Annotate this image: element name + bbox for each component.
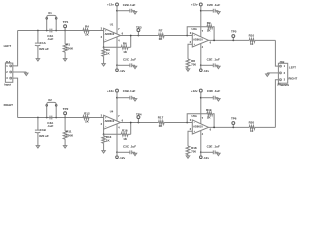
node jumper left <box>46 30 48 32</box>
op-amp U4 <box>104 115 121 129</box>
wire inverting input <box>103 40 105 47</box>
svg-text:R17: R17 <box>158 116 164 120</box>
svg-text:J1A: J1A <box>5 60 10 64</box>
ground <box>25 72 27 73</box>
wire non-inverting input <box>188 44 192 59</box>
svg-text:C2C: C2C <box>123 57 130 61</box>
wire stage2 output <box>209 39 250 41</box>
svg-text:R9: R9 <box>207 21 211 25</box>
wire pin 7 supply <box>200 98 202 124</box>
node input junction <box>37 117 39 119</box>
svg-text:TP2: TP2 <box>63 107 69 111</box>
test point TP6 <box>232 125 234 128</box>
wire inverting input <box>103 127 105 134</box>
ground <box>64 145 66 147</box>
test point TP5 <box>232 38 234 41</box>
resistor R9 feedback <box>187 27 207 36</box>
power -12V terminal <box>200 69 203 72</box>
resistor R7 <box>159 34 165 38</box>
svg-text:C3D: C3D <box>207 89 214 93</box>
node supply junction <box>200 97 202 99</box>
svg-text:R16: R16 <box>122 129 128 133</box>
node test point TP2 <box>64 117 66 119</box>
svg-text:750: 750 <box>191 63 196 67</box>
svg-text:-12v: -12v <box>203 69 209 73</box>
svg-text:U1: U1 <box>110 23 114 27</box>
node jumper left <box>46 117 48 119</box>
jumper X1 <box>46 19 48 31</box>
wire RIGHT input net <box>18 117 104 119</box>
svg-text:820 uF: 820 uF <box>39 134 49 138</box>
resistor R12 <box>83 116 89 120</box>
svg-text:U4: U4 <box>110 110 114 114</box>
svg-text:+12v: +12v <box>191 89 198 93</box>
wire non-inverting input <box>188 131 192 146</box>
svg-text:C3E: C3E <box>207 145 213 149</box>
ground <box>37 58 39 60</box>
svg-text:LEFT: LEFT <box>4 44 12 48</box>
svg-text:C2E: C2E <box>207 58 213 62</box>
ground <box>134 97 136 100</box>
svg-text:X2: X2 <box>48 98 52 102</box>
resistor R13 <box>103 134 105 136</box>
connector J1B <box>278 63 287 83</box>
node test point TP5 <box>232 39 234 41</box>
svg-text:RIGHT: RIGHT <box>4 103 14 107</box>
wire pin 4 supply <box>116 124 118 152</box>
capacitor C2C <box>117 64 130 66</box>
power -12V terminal <box>200 156 203 159</box>
wire stage2 output <box>209 126 250 128</box>
svg-text:Input: Input <box>4 83 11 87</box>
svg-text:TP1: TP1 <box>63 20 69 24</box>
node supply junction <box>116 151 118 153</box>
svg-text:TP6: TP6 <box>231 116 237 120</box>
node feedback junction <box>103 133 105 135</box>
node supply junction <box>200 10 202 12</box>
svg-text:LEFT: LEFT <box>289 66 296 70</box>
node stage2 inverting node <box>186 35 188 37</box>
op-amp U1 <box>104 28 121 42</box>
svg-text:-12v: -12v <box>203 156 209 160</box>
svg-text:-12v: -12v <box>119 156 125 160</box>
node stage2 inverting node <box>186 122 188 124</box>
svg-text:RIGHT: RIGHT <box>289 76 298 80</box>
wire pin 7 supply <box>116 11 118 34</box>
node jumper right <box>55 30 57 32</box>
ground <box>266 73 268 74</box>
node feedback tap <box>130 122 132 124</box>
svg-text:820 uF: 820 uF <box>39 47 49 51</box>
svg-text:+12v: +12v <box>107 3 114 7</box>
ground <box>187 155 189 157</box>
svg-text:U5A: U5A <box>192 114 197 118</box>
ground <box>217 10 219 13</box>
svg-text:TP3: TP3 <box>136 25 142 29</box>
svg-text:.1uF: .1uF <box>129 89 135 93</box>
test point TP1 <box>64 28 66 31</box>
op-amp U5A <box>192 120 208 134</box>
ground <box>217 152 219 155</box>
jumper X2 <box>46 106 48 118</box>
svg-text:.1uF: .1uF <box>214 89 220 93</box>
node output feedback tap <box>213 126 215 128</box>
svg-text:10: 10 <box>250 42 254 46</box>
svg-text:TP5: TP5 <box>231 29 237 33</box>
ground <box>134 10 136 13</box>
resistor R18 <box>186 146 190 155</box>
node supply junction <box>116 97 118 99</box>
svg-text:750: 750 <box>191 150 196 154</box>
wire pin 4 supply <box>200 44 202 66</box>
node output feedback tap <box>213 39 215 41</box>
node supply junction <box>116 10 118 12</box>
svg-text:C3C: C3C <box>123 144 130 148</box>
svg-text:AD8610: AD8610 <box>105 32 115 36</box>
svg-text:+12v: +12v <box>191 3 198 7</box>
svg-text:R4: R4 <box>85 25 89 29</box>
node input junction <box>37 30 39 32</box>
capacitor C3E <box>201 151 214 153</box>
svg-text:-12v: -12v <box>119 69 125 73</box>
wire J1B pin2 to ground <box>267 72 278 74</box>
svg-text:TP4: TP4 <box>136 112 142 116</box>
svg-text:100K: 100K <box>66 134 74 138</box>
ground <box>187 68 189 70</box>
capacitor C1A <box>37 31 39 44</box>
svg-text:R10: R10 <box>249 33 255 37</box>
wire J1A pin3 to right channel <box>13 78 18 117</box>
test point TP3 <box>137 32 139 36</box>
svg-text:C1A: C1A <box>40 41 47 45</box>
ground <box>103 149 105 151</box>
svg-text:.1uF: .1uF <box>214 145 220 149</box>
resistor R19 feedback <box>187 114 207 123</box>
resistor R16 feedback <box>104 133 122 135</box>
wire LEFT input net <box>18 30 104 32</box>
node supply junction <box>200 151 202 153</box>
capacitor C3C <box>117 151 130 153</box>
ground <box>103 62 105 64</box>
capacitor C3A <box>49 116 51 120</box>
wire pin 7 supply <box>116 98 118 121</box>
power +12V terminal <box>116 89 119 92</box>
wire pin 4 supply <box>116 37 118 65</box>
svg-text:X1: X1 <box>48 11 52 15</box>
svg-text:R20: R20 <box>249 120 255 124</box>
wire pin 4 supply <box>200 131 202 153</box>
svg-text:C2D: C2D <box>207 3 214 7</box>
ground <box>64 58 66 60</box>
svg-text:Phones: Phones <box>277 83 289 87</box>
resistor R10 <box>249 39 255 43</box>
power +12V terminal <box>199 89 202 92</box>
ground <box>134 65 136 68</box>
resistor R8 <box>186 59 190 68</box>
test point TP4 <box>137 119 139 123</box>
svg-text:R12: R12 <box>84 112 90 116</box>
resistor R3 <box>103 47 105 49</box>
connector J1A <box>5 63 12 82</box>
wire J1B pin3 from right channel <box>275 80 278 128</box>
node feedback junction <box>103 46 105 48</box>
wire stage1 output <box>121 122 159 124</box>
svg-text:.1uF: .1uF <box>130 144 136 148</box>
test point TP2 <box>64 115 66 118</box>
node feedback tap <box>130 35 132 37</box>
capacitor C2E <box>201 64 214 66</box>
op-amp U2A <box>192 33 208 47</box>
wire J1A pin2 to ground <box>13 71 26 73</box>
ground <box>217 65 219 68</box>
svg-text:AD8610: AD8610 <box>193 38 203 42</box>
capacitor C3D <box>201 97 214 99</box>
node jumper right <box>55 117 57 119</box>
resistor R1 <box>64 31 66 44</box>
capacitor C1B <box>37 118 39 131</box>
svg-text:C1B: C1B <box>40 128 47 132</box>
wire J1B pin1 from left channel <box>275 40 278 66</box>
wire pin 7 supply <box>200 11 202 37</box>
svg-text:.1uF: .1uF <box>47 124 53 128</box>
svg-text:R6: R6 <box>123 42 127 46</box>
svg-text:100K: 100K <box>66 47 74 51</box>
ground <box>134 152 136 155</box>
svg-text:.1uF: .1uF <box>47 37 53 41</box>
ground <box>217 97 219 100</box>
node test point TP3 <box>138 35 140 37</box>
svg-text:.1uF: .1uF <box>129 3 135 7</box>
svg-text:AD8610: AD8610 <box>105 119 115 123</box>
svg-text:J1B: J1B <box>279 60 284 64</box>
power -12V terminal <box>116 156 119 159</box>
power -12V terminal <box>116 69 119 72</box>
capacitor C2A <box>49 29 51 33</box>
node test point TP4 <box>138 122 140 124</box>
svg-text:+12v: +12v <box>107 89 114 93</box>
svg-text:.1uF: .1uF <box>214 58 220 62</box>
capacitor C2D <box>201 10 214 12</box>
resistor R6 feedback <box>104 46 122 48</box>
svg-text:R7: R7 <box>159 29 163 33</box>
resistor R20 <box>249 126 255 130</box>
capacitor C3B <box>117 97 130 99</box>
node test point TP6 <box>232 126 234 128</box>
svg-text:U2A: U2A <box>192 27 197 31</box>
svg-text:AD8610: AD8610 <box>193 125 203 129</box>
node supply junction <box>116 64 118 66</box>
power +12V terminal <box>116 3 119 6</box>
node test point TP1 <box>64 30 66 32</box>
resistor R17 <box>159 121 165 125</box>
wire J1A pin1 to left channel <box>13 31 18 66</box>
capacitor C2B <box>117 10 130 12</box>
svg-text:.1uF: .1uF <box>130 57 136 61</box>
svg-text:R19: R19 <box>206 108 212 112</box>
resistor R4 <box>83 29 89 33</box>
resistor R11 <box>64 118 66 131</box>
svg-text:.1uF: .1uF <box>214 3 220 7</box>
node supply junction <box>200 64 202 66</box>
svg-text:10: 10 <box>250 129 254 133</box>
wire stage1 output <box>121 35 159 37</box>
power +12V terminal <box>199 3 202 6</box>
ground <box>37 145 39 147</box>
